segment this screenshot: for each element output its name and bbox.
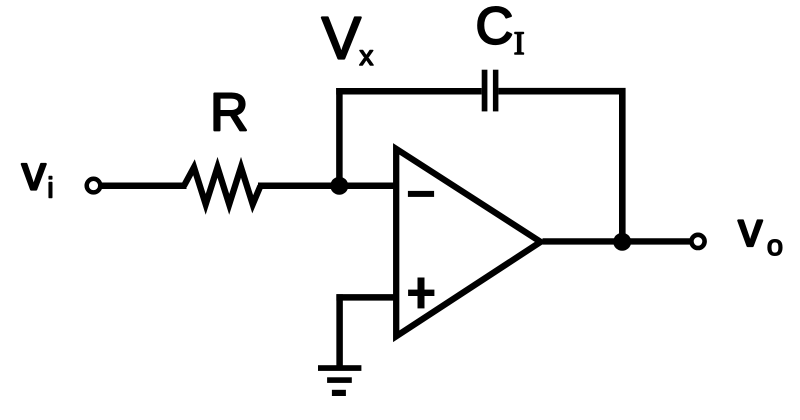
svg-text:C: C (476, 0, 514, 56)
label V_x (322, 5, 374, 71)
svg-text:R: R (210, 83, 248, 142)
node V_x (junction dot) (330, 177, 348, 195)
capacitor C_I (482, 70, 499, 112)
output wire from op-amp (543, 238, 690, 244)
svg-text:V: V (322, 5, 362, 71)
output terminal (open circle) (691, 235, 704, 248)
label C_I (476, 0, 525, 62)
svg-text:x: x (359, 40, 373, 71)
svg-text:I: I (514, 26, 525, 62)
wire capacitor to right corner, down to output node (498, 91, 622, 241)
output node (junction dot) (613, 233, 631, 251)
input terminal (open circle) (87, 179, 101, 193)
label v_i (22, 147, 54, 205)
wire non-inverting input (336, 294, 396, 301)
wire feedback top-left to capacitor (336, 88, 482, 95)
wire input to resistor (102, 183, 187, 190)
svg-text:o: o (767, 230, 783, 262)
op-amp plus sign (non-inverting input marker) (408, 278, 434, 309)
svg-text:v: v (738, 203, 763, 257)
label v_o (738, 203, 783, 262)
op-amp minus sign (inverting input marker) (408, 191, 434, 197)
resistor R (184, 167, 261, 204)
svg-text:v: v (22, 147, 47, 201)
wire node up to feedback (336, 88, 343, 189)
wire down to ground (336, 294, 343, 368)
ground (318, 365, 361, 396)
wire resistor to op-amp inverting input (258, 183, 396, 190)
svg-text:i: i (47, 173, 53, 205)
op-amp U1 (triangle) (396, 149, 540, 336)
